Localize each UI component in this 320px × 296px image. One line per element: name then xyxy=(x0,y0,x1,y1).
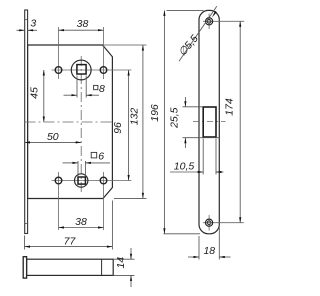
dimension 45 xyxy=(43,70,45,122)
faceplate strip tick bottom xyxy=(25,223,28,225)
screw hole bottom right xyxy=(100,177,107,184)
faceplate outline xyxy=(199,10,219,233)
spindle square 6mm xyxy=(78,177,85,184)
svg-text:14: 14 xyxy=(115,257,127,269)
dimension 96 xyxy=(128,70,130,181)
dimension 18 xyxy=(188,226,231,260)
spindle follower circle top xyxy=(71,60,91,80)
centerline bottom holes xyxy=(52,180,132,182)
svg-text:18: 18 xyxy=(203,245,215,257)
svg-text:174: 174 xyxy=(223,98,235,116)
svg-text:38: 38 xyxy=(75,216,87,228)
crosshair vertical top plate hole xyxy=(208,14,210,30)
screw hole top right xyxy=(100,67,107,74)
centerline vertical left hole bottom xyxy=(58,172,60,230)
dimension 38 bottom xyxy=(59,227,104,229)
dimension 10,5 xyxy=(170,139,224,175)
centerline latch xyxy=(193,121,226,123)
faceplate strip tick top xyxy=(25,19,28,21)
dimension 50 xyxy=(25,141,82,143)
dimension 3 faceplate thickness xyxy=(17,29,38,31)
svg-text:25,5: 25,5 xyxy=(169,107,181,129)
svg-text:8: 8 xyxy=(99,83,105,95)
lock case bottom view body xyxy=(27,259,114,275)
centerline vertical left hole top xyxy=(58,27,60,79)
centerline top plate hole xyxy=(203,20,244,22)
plate screw hole bottom xyxy=(206,219,213,226)
svg-text:50: 50 xyxy=(47,131,59,143)
centerline vertical right hole top xyxy=(103,27,105,79)
dimension 38 top xyxy=(59,29,104,31)
spindle square 8mm xyxy=(77,65,86,74)
latch opening xyxy=(203,107,216,137)
chamfer edge line bottom view xyxy=(101,259,103,275)
svg-text:45: 45 xyxy=(29,87,41,99)
faceplate side strip xyxy=(25,10,28,234)
dimension 25,5 xyxy=(183,97,220,148)
crosshair vertical bottom plate hole xyxy=(208,215,210,231)
dimension square 6 xyxy=(63,161,111,176)
screw hole bottom left xyxy=(55,177,62,184)
centerline top holes xyxy=(52,69,132,71)
svg-text:132: 132 xyxy=(129,108,141,126)
centerline vertical spindle axis xyxy=(80,56,82,193)
label square-6 xyxy=(91,152,97,158)
centerline bottom plate hole xyxy=(203,222,244,224)
svg-text:∅5,5: ∅5,5 xyxy=(176,33,201,59)
svg-text:6: 6 xyxy=(98,151,104,163)
dimension square 8 xyxy=(64,76,100,98)
dimension 196 xyxy=(164,10,204,233)
svg-text:77: 77 xyxy=(64,235,77,247)
centerline middle dash-dot xyxy=(25,121,115,123)
dimension 132 xyxy=(104,45,147,198)
plate screw hole top xyxy=(206,18,213,25)
dimension 174 xyxy=(239,21,241,222)
svg-text:38: 38 xyxy=(77,18,89,30)
dimension 77 xyxy=(25,201,113,250)
centerline vertical right hole bottom xyxy=(103,172,105,230)
faceplate end cap xyxy=(23,257,26,278)
svg-text:10,5: 10,5 xyxy=(174,160,195,172)
lock body outline xyxy=(28,45,113,199)
leader diameter 5,5 xyxy=(179,6,217,61)
svg-text:96: 96 xyxy=(112,122,124,134)
spindle follower circle bottom xyxy=(75,174,88,187)
svg-text:196: 196 xyxy=(149,104,161,122)
dimension 14 xyxy=(113,248,134,287)
label square-8 xyxy=(94,85,98,89)
svg-text:3: 3 xyxy=(30,18,36,30)
screw hole top left xyxy=(55,67,62,74)
